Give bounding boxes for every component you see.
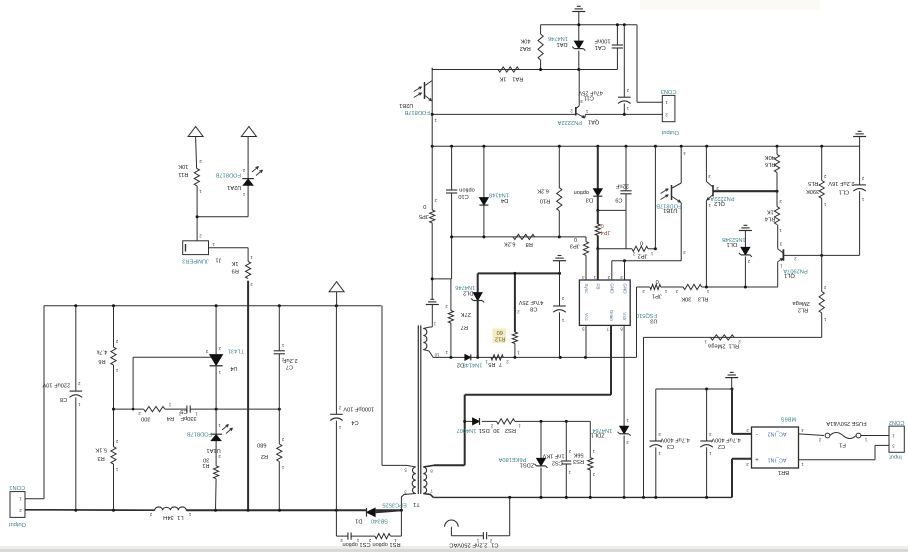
- svg-text:D3: D3: [586, 197, 593, 203]
- svg-text:RL3: RL3: [698, 296, 708, 302]
- svg-text:0: 0: [640, 240, 643, 246]
- svg-text:U2B1: U2B1: [399, 102, 413, 108]
- svg-text:2.2uF 16V: 2.2uF 16V: [828, 180, 854, 186]
- svg-text:RS2: RS2: [505, 427, 516, 433]
- svg-text:40K: 40K: [765, 154, 775, 160]
- svg-text:R5: R5: [488, 361, 495, 367]
- svg-text:PN2907A: PN2907A: [783, 267, 808, 273]
- svg-text:RL5: RL5: [808, 180, 818, 186]
- svg-text:1N4148: 1N4148: [489, 192, 509, 198]
- svg-text:Vstr: Vstr: [622, 312, 627, 321]
- svg-text:RS3: RS3: [573, 458, 584, 464]
- svg-text:C11: C11: [584, 94, 594, 100]
- svg-text:FUSE 250V&1A: FUSE 250V&1A: [826, 420, 866, 426]
- svg-text:JP1: JP1: [652, 292, 662, 298]
- svg-text:+: +: [755, 458, 759, 464]
- svg-text:AC_IN2: AC_IN2: [768, 430, 787, 436]
- svg-text:FB: FB: [596, 284, 601, 290]
- svg-text:30: 30: [203, 456, 209, 462]
- svg-text:680: 680: [257, 442, 267, 448]
- svg-text:4.7uF 400V: 4.7uF 400V: [711, 437, 741, 443]
- svg-text:RL6: RL6: [765, 161, 775, 167]
- svg-text:22nF: 22nF: [615, 183, 628, 189]
- svg-text:R3: R3: [97, 455, 104, 461]
- svg-text:Vcc: Vcc: [584, 313, 589, 321]
- svg-text:U1B1: U1B1: [663, 207, 677, 213]
- svg-text:0: 0: [601, 222, 604, 228]
- svg-text:option: option: [574, 189, 590, 195]
- svg-text:JP4: JP4: [600, 229, 610, 235]
- svg-text:JP2: JP2: [638, 253, 648, 259]
- svg-text:SB340: SB340: [371, 518, 388, 524]
- svg-text:1N4148: 1N4148: [463, 361, 483, 367]
- svg-text:4.7uF 400V: 4.7uF 400V: [660, 437, 690, 443]
- svg-text:7: 7: [499, 361, 502, 367]
- svg-text:300: 300: [141, 416, 151, 422]
- svg-text:0: 0: [574, 236, 577, 242]
- svg-text:RA1: RA1: [512, 75, 523, 81]
- svg-text:C10: C10: [458, 193, 468, 199]
- svg-text:R6: R6: [98, 358, 105, 364]
- svg-text:FOD817B: FOD817B: [187, 430, 212, 436]
- svg-text:CON1: CON1: [9, 484, 25, 490]
- svg-text:220uF 10V: 220uF 10V: [42, 381, 70, 387]
- svg-text:DL2: DL2: [463, 290, 473, 296]
- svg-text:C4: C4: [351, 419, 358, 425]
- svg-text:6.2K: 6.2K: [537, 188, 549, 194]
- svg-text:390K: 390K: [806, 188, 819, 194]
- svg-text:U1A1: U1A1: [206, 447, 220, 453]
- svg-text:5.1K: 5.1K: [95, 446, 107, 452]
- svg-text:DS1: DS1: [479, 427, 490, 433]
- svg-text:option: option: [459, 187, 475, 193]
- svg-text:D4: D4: [501, 197, 508, 203]
- svg-text:QL2: QL2: [714, 200, 725, 206]
- svg-text:MB6S: MB6S: [781, 416, 797, 422]
- svg-text:CA1: CA1: [595, 44, 606, 50]
- svg-text:R8: R8: [526, 241, 533, 247]
- svg-text:JP3: JP3: [570, 243, 580, 249]
- svg-text:T1: T1: [413, 501, 420, 507]
- svg-text:34H: 34H: [163, 514, 173, 520]
- svg-text:CS2: CS2: [552, 459, 563, 465]
- svg-text:JP5: JP5: [419, 213, 429, 219]
- svg-text:GND: GND: [622, 283, 627, 294]
- svg-text:C8: C8: [60, 396, 67, 402]
- svg-text:C9: C9: [615, 196, 622, 202]
- svg-text:DL1: DL1: [727, 241, 737, 247]
- svg-text:1N4746: 1N4746: [455, 284, 475, 290]
- svg-text:2Mega: 2Mega: [792, 300, 810, 306]
- svg-text:RL4: RL4: [765, 215, 775, 221]
- svg-text:R2: R2: [261, 453, 268, 459]
- svg-text:40K: 40K: [520, 37, 530, 43]
- svg-text:30: 30: [493, 427, 499, 433]
- svg-text:C2: C2: [718, 443, 725, 449]
- svg-text:R10: R10: [540, 197, 550, 203]
- svg-text:2Mega: 2Mega: [707, 343, 725, 349]
- svg-text:Output: Output: [9, 521, 26, 527]
- svg-text:R7: R7: [461, 324, 468, 330]
- svg-text:27K: 27K: [461, 311, 471, 317]
- svg-text:R11: R11: [178, 171, 188, 177]
- svg-text:RL1: RL1: [729, 343, 739, 349]
- svg-text:1N4746: 1N4746: [548, 35, 568, 41]
- svg-text:2.2nF 250VAC: 2.2nF 250VAC: [449, 542, 488, 548]
- svg-text:C3: C3: [667, 443, 674, 449]
- svg-text:CON2: CON2: [889, 419, 905, 425]
- svg-text:U2A1: U2A1: [227, 184, 241, 190]
- svg-text:ZDS1: ZDS1: [520, 461, 535, 467]
- svg-text:CL1: CL1: [839, 188, 849, 194]
- svg-text:DA1: DA1: [557, 41, 568, 47]
- svg-text:60: 60: [497, 329, 503, 335]
- svg-text:1K: 1K: [767, 209, 774, 215]
- svg-text:0: 0: [423, 203, 426, 209]
- svg-text:1000pF 10V: 1000pF 10V: [343, 406, 374, 412]
- svg-text:CS1 option: CS1 option: [342, 541, 370, 547]
- svg-text:FSQ510: FSQ510: [636, 312, 657, 318]
- svg-text:PN2222A: PN2222A: [557, 119, 582, 125]
- svg-text:P6KE180A: P6KE180A: [498, 456, 526, 462]
- svg-text:1N4007: 1N4007: [457, 427, 477, 433]
- svg-text:U3: U3: [650, 317, 657, 323]
- svg-text:R9: R9: [232, 268, 239, 274]
- svg-text:330pF: 330pF: [180, 415, 197, 421]
- svg-text:JUMPER3: JUMPER3: [182, 257, 209, 263]
- svg-text:L1: L1: [177, 514, 183, 520]
- svg-text:BR1: BR1: [778, 469, 789, 475]
- svg-text:0: 0: [656, 278, 659, 284]
- svg-text:EPC3525: EPC3525: [382, 502, 406, 508]
- svg-text:Output: Output: [661, 129, 678, 135]
- svg-text:56K: 56K: [573, 452, 583, 458]
- svg-text:QA1: QA1: [588, 119, 599, 125]
- svg-text:F1: F1: [839, 441, 846, 447]
- svg-text:D1: D1: [355, 518, 362, 524]
- svg-text:10K: 10K: [178, 163, 188, 169]
- svg-text:30K: 30K: [681, 296, 691, 302]
- svg-text:1K: 1K: [231, 260, 238, 266]
- svg-text:100nF: 100nF: [594, 37, 611, 43]
- svg-text:47uF 25V: 47uF 25V: [518, 299, 543, 305]
- svg-text:6.2K: 6.2K: [504, 241, 516, 247]
- svg-text:RA2: RA2: [520, 45, 531, 51]
- svg-text:TL431: TL431: [228, 348, 244, 354]
- svg-text:10: 10: [434, 352, 439, 357]
- svg-text:R12: R12: [495, 336, 505, 342]
- svg-text:Sync: Sync: [584, 283, 589, 294]
- svg-text:R4: R4: [167, 415, 174, 421]
- svg-text:U4: U4: [230, 365, 237, 371]
- svg-text:C8: C8: [530, 305, 537, 311]
- svg-text:AC_IN1: AC_IN1: [768, 456, 787, 462]
- svg-text:C7: C7: [286, 364, 293, 370]
- svg-text:GND: GND: [610, 283, 615, 294]
- svg-text:CON3: CON3: [661, 88, 677, 94]
- svg-text:Drain: Drain: [609, 310, 614, 321]
- svg-text:FOD817B: FOD817B: [404, 109, 429, 115]
- svg-text:4.7k: 4.7k: [96, 349, 107, 355]
- svg-text:FOD817B: FOD817B: [215, 172, 240, 178]
- svg-text:R1: R1: [202, 462, 209, 468]
- svg-text:1K: 1K: [499, 75, 506, 81]
- svg-text:Input: Input: [889, 453, 902, 459]
- svg-text:ZDL1: ZDL1: [591, 432, 605, 438]
- svg-text:RL2: RL2: [798, 306, 808, 312]
- svg-text:J1: J1: [215, 256, 221, 262]
- svg-text:-: -: [756, 432, 758, 438]
- svg-text:1nF 1KV: 1nF 1KV: [542, 453, 564, 459]
